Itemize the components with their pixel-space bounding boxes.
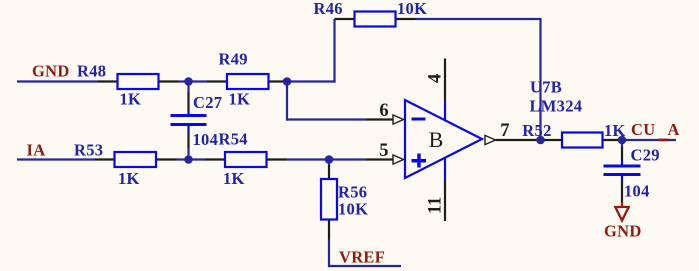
svg-text:R52: R52 (522, 121, 551, 140)
svg-text:10K: 10K (338, 200, 368, 219)
svg-text:R46: R46 (314, 0, 343, 18)
svg-text:R48: R48 (77, 62, 106, 81)
svg-text:R54: R54 (219, 130, 248, 149)
svg-text:VREF: VREF (339, 248, 385, 267)
svg-text:C29: C29 (631, 146, 660, 165)
svg-text:1K: 1K (604, 121, 626, 140)
svg-text:C27: C27 (193, 93, 222, 112)
svg-text:A: A (668, 120, 680, 139)
svg-text:R49: R49 (219, 50, 248, 69)
svg-text:B: B (429, 127, 444, 152)
svg-text:7: 7 (500, 121, 509, 141)
svg-text:U7B: U7B (530, 78, 562, 97)
svg-text:10K: 10K (397, 0, 427, 18)
svg-text:1K: 1K (223, 169, 245, 188)
svg-text:IA: IA (27, 141, 46, 160)
svg-text:6: 6 (379, 101, 388, 121)
svg-text:1K: 1K (118, 169, 140, 188)
svg-text:11: 11 (426, 197, 446, 214)
svg-text:5: 5 (379, 141, 388, 161)
svg-text:GND: GND (604, 222, 642, 241)
svg-text:104: 104 (193, 130, 219, 149)
svg-text:4: 4 (425, 74, 445, 83)
svg-text:104: 104 (624, 182, 650, 201)
svg-text:1K: 1K (120, 90, 142, 109)
svg-text:R53: R53 (74, 141, 103, 160)
svg-text:LM324: LM324 (530, 97, 583, 116)
svg-text:GND: GND (32, 62, 70, 81)
svg-text:1K: 1K (229, 90, 251, 109)
svg-text:CU: CU (631, 120, 655, 139)
